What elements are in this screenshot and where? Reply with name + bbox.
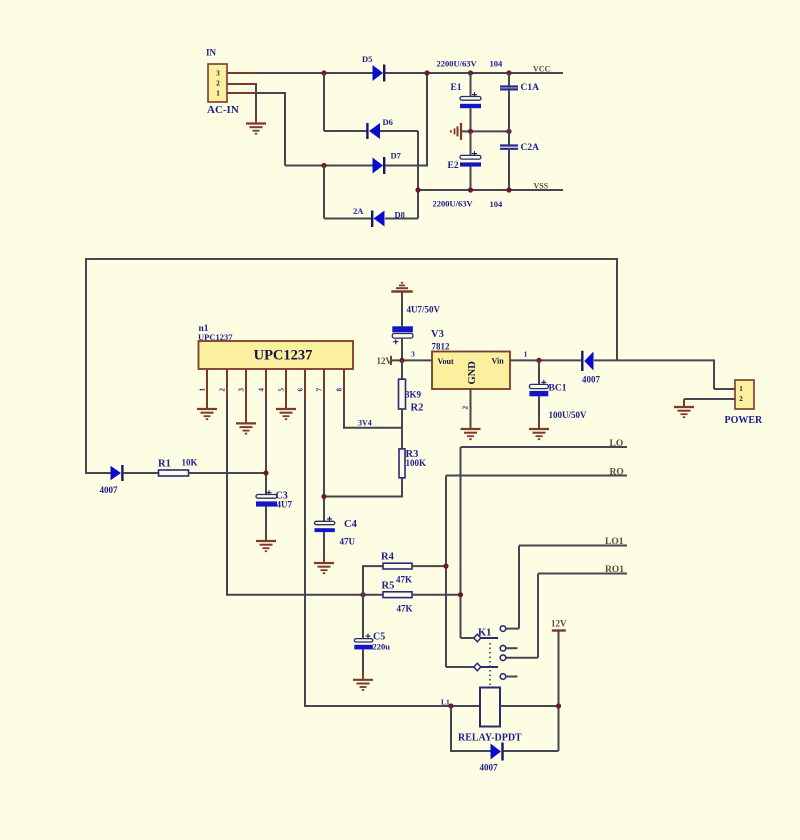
switch K1 contact NC A stub bbox=[500, 645, 506, 651]
resistor R3 bbox=[399, 449, 426, 478]
wire pin7 down to C4 bbox=[323, 399, 325, 521]
node junction D7 row bbox=[321, 163, 326, 168]
svg-text:3: 3 bbox=[238, 388, 246, 392]
svg-text:R4: R4 bbox=[381, 552, 395, 563]
svg-text:IN: IN bbox=[206, 48, 217, 58]
diode D8 bbox=[353, 206, 405, 227]
ground C4 bbox=[314, 555, 334, 573]
pin 1 stub of AC-IN bbox=[227, 92, 257, 94]
svg-text:E2: E2 bbox=[448, 161, 459, 171]
svg-text:2: 2 bbox=[216, 80, 220, 88]
node LO/R5 junction bbox=[458, 592, 463, 597]
svg-text:4007: 4007 bbox=[100, 485, 119, 495]
svg-text:1: 1 bbox=[739, 385, 743, 393]
pin 2 of V3 bbox=[461, 389, 471, 422]
net LO wire bbox=[461, 446, 628, 448]
svg-text:3: 3 bbox=[216, 70, 220, 78]
wire POWER pin2 to ground bbox=[684, 398, 735, 400]
ground at AC-IN pin2 bbox=[246, 116, 266, 134]
svg-text:POWER: POWER bbox=[725, 415, 764, 426]
svg-text:2: 2 bbox=[739, 395, 743, 403]
wire 12V to V3 Vout bbox=[391, 359, 432, 361]
svg-text:UPC1237: UPC1237 bbox=[198, 332, 233, 342]
switch K1 contact NC B stub bbox=[500, 674, 506, 680]
switch K1 pole A bbox=[474, 634, 498, 642]
capacitor E1 bbox=[451, 73, 482, 131]
net LO1 wire bbox=[519, 545, 627, 547]
wire to D6 anode bbox=[324, 130, 367, 132]
diode 4007 mid bbox=[582, 351, 601, 385]
wire D8 row left bbox=[324, 218, 372, 220]
capacitor C5 bbox=[354, 632, 390, 674]
connector POWER bbox=[725, 380, 764, 426]
wire R1 to pin4 node bbox=[189, 472, 267, 474]
resistor R2 bbox=[399, 360, 424, 413]
svg-text:RO: RO bbox=[610, 468, 624, 478]
svg-text:2200U/63V: 2200U/63V bbox=[437, 58, 478, 68]
wire down to D6 row bbox=[323, 73, 325, 131]
diode 4007 flyback bbox=[480, 743, 503, 773]
svg-text:4: 4 bbox=[258, 388, 266, 392]
wire flyback loop left bbox=[450, 706, 452, 752]
wire pin2 row to R5 bbox=[227, 594, 383, 596]
wire diode to R1 bbox=[123, 472, 159, 474]
svg-text:104: 104 bbox=[490, 58, 504, 68]
wire pin4 down to R1 node bbox=[265, 399, 267, 495]
svg-text:BC1: BC1 bbox=[549, 384, 567, 394]
svg-text:3K9: 3K9 bbox=[405, 390, 422, 400]
svg-text:220u: 220u bbox=[373, 642, 391, 652]
svg-text:Vout: Vout bbox=[438, 357, 454, 366]
svg-text:100K: 100K bbox=[406, 458, 427, 468]
connector AC-IN body bbox=[208, 64, 227, 102]
ground bar inverted above 4U7 cap bbox=[391, 283, 412, 292]
svg-text:1: 1 bbox=[216, 90, 220, 98]
power bar 12V relay bbox=[552, 629, 566, 631]
wire pin2 down bbox=[226, 399, 228, 596]
node R3/C4 junction bbox=[321, 494, 326, 499]
pin 3 stub of AC-IN bbox=[227, 72, 257, 74]
svg-text:V3: V3 bbox=[431, 329, 444, 340]
wire pin3 to D5 bbox=[257, 72, 373, 74]
capacitor C3 bbox=[256, 490, 292, 534]
resistor R1 bbox=[158, 458, 198, 477]
svg-text:VCC: VCC bbox=[533, 65, 551, 74]
capacitor C1A bbox=[500, 73, 539, 145]
wire big loop top bbox=[86, 258, 617, 260]
diode 4007 left bbox=[100, 465, 123, 495]
wire 4U7 down to 12V node bbox=[401, 338, 403, 360]
svg-text:R5: R5 bbox=[382, 581, 395, 592]
pin 6 of U1 bbox=[297, 369, 306, 399]
wire R3 bottom to pin7 bbox=[401, 478, 403, 498]
svg-text:6: 6 bbox=[297, 388, 305, 392]
wire vertical D6 to D8 bbox=[417, 131, 419, 219]
svg-text:4U7: 4U7 bbox=[277, 500, 293, 510]
svg-text:7: 7 bbox=[316, 388, 324, 392]
pin 3 of U1 bbox=[238, 369, 247, 416]
svg-text:R2: R2 bbox=[411, 403, 424, 414]
svg-text:1: 1 bbox=[199, 388, 207, 392]
wire D5 to VCC rail bbox=[385, 72, 563, 74]
relay coil RELAY-DPDT bbox=[458, 688, 522, 744]
svg-text:7812: 7812 bbox=[432, 342, 451, 352]
wire LO1 vertical to contact bbox=[518, 546, 520, 629]
wire pin8 down and right (3V4 net) bbox=[343, 399, 345, 428]
IC n1 UPC1237 bbox=[198, 324, 353, 369]
capacitor E2 bbox=[448, 131, 482, 190]
wire diode to POWER bbox=[594, 359, 714, 361]
wire R2 to R3 bbox=[401, 409, 403, 449]
wire pin6 down bbox=[304, 399, 306, 707]
resistor R4 bbox=[363, 552, 446, 585]
wire D8 to right vertical bbox=[385, 218, 418, 220]
svg-text:E1: E1 bbox=[451, 83, 462, 93]
wire RO1 vertical to contact bbox=[537, 574, 539, 658]
wire coil right to 12V vertical bbox=[500, 705, 559, 707]
svg-text:LO1: LO1 bbox=[605, 537, 624, 547]
wire bar to 4U7 cap bbox=[401, 293, 403, 327]
node junction on pin3 wire bbox=[321, 70, 326, 75]
svg-text:4007: 4007 bbox=[480, 763, 499, 773]
svg-text:1: 1 bbox=[524, 350, 528, 359]
wire pin1 right and down bbox=[257, 92, 285, 94]
svg-text:AC-IN: AC-IN bbox=[207, 104, 239, 116]
svg-text:C1A: C1A bbox=[521, 83, 540, 93]
svg-text:4U7/50V: 4U7/50V bbox=[407, 305, 441, 315]
capacitor C4 bbox=[315, 516, 358, 556]
wire pin2 down to ground bbox=[255, 83, 256, 85]
svg-text:104: 104 bbox=[490, 199, 504, 209]
ground pin1 bbox=[197, 401, 217, 419]
wire R1 row left bbox=[86, 472, 111, 474]
ground V3 pin2 bbox=[461, 421, 481, 439]
ground C5 bbox=[353, 672, 373, 690]
wire D7 to right bbox=[385, 165, 427, 167]
wire coil row left bbox=[305, 705, 480, 707]
svg-text:3V4: 3V4 bbox=[358, 419, 372, 428]
svg-text:2: 2 bbox=[461, 406, 470, 410]
svg-text:RO1: RO1 bbox=[605, 565, 624, 575]
regulator V3 7812 bbox=[431, 329, 510, 389]
mid rail between E1/E2 bbox=[461, 130, 509, 132]
wire big loop right vertical bbox=[616, 258, 618, 360]
diode D6 bbox=[367, 117, 392, 139]
dotted actuator link bbox=[489, 643, 491, 687]
pin 2 stub of AC-IN bbox=[227, 83, 256, 85]
VSS rail bbox=[418, 189, 563, 191]
wire vertical to D8 row bbox=[323, 166, 325, 219]
diode D7 bbox=[373, 151, 402, 175]
capacitor BC1 bbox=[529, 360, 587, 422]
svg-text:100U/50V: 100U/50V bbox=[549, 410, 588, 420]
svg-text:2A: 2A bbox=[353, 206, 364, 216]
svg-text:R1: R1 bbox=[158, 459, 171, 470]
svg-text:RELAY-DPDT: RELAY-DPDT bbox=[458, 733, 522, 744]
net RO wire bbox=[446, 475, 627, 477]
pin 8 of U1 bbox=[336, 369, 345, 399]
svg-text:47U: 47U bbox=[340, 537, 356, 547]
wire RO vertical to pole B bbox=[445, 476, 447, 668]
ground rotated left at mid rail bbox=[451, 123, 461, 140]
net RO1 wire bbox=[538, 573, 627, 575]
svg-text:LO: LO bbox=[610, 439, 624, 449]
svg-text:C2A: C2A bbox=[521, 143, 540, 153]
wire 12V down to coil bbox=[558, 631, 560, 752]
pin 2 of U1 bbox=[219, 369, 228, 399]
svg-text:2: 2 bbox=[219, 388, 227, 392]
resistor R5 bbox=[382, 581, 461, 614]
svg-text:GND: GND bbox=[467, 361, 478, 385]
node coil right junction bbox=[556, 703, 561, 708]
ground BC1 bbox=[529, 421, 549, 439]
capacitor 4U7/50V bbox=[392, 305, 440, 345]
junction VCC rail nodes bbox=[424, 70, 429, 75]
ground C3 bbox=[256, 533, 276, 551]
svg-text:47K: 47K bbox=[397, 604, 413, 614]
wire D6 to right vertical bbox=[380, 130, 418, 132]
svg-text:12V: 12V bbox=[551, 619, 567, 629]
node 12V junction bbox=[399, 358, 404, 363]
svg-text:D6: D6 bbox=[383, 117, 393, 127]
svg-text:Vin: Vin bbox=[492, 357, 505, 366]
wire R4 left down to C5 bbox=[362, 565, 364, 638]
ground POWER bbox=[674, 399, 694, 417]
node R1/C3 junction bbox=[263, 470, 268, 475]
svg-text:8: 8 bbox=[336, 388, 344, 392]
wire big loop left vertical bbox=[85, 258, 87, 474]
power bar 12V at V3 bbox=[390, 356, 392, 365]
pin 1 of U1 bbox=[199, 369, 208, 402]
wire Vin to diode bbox=[510, 359, 581, 361]
node coil left junction bbox=[448, 703, 453, 708]
svg-text:10K: 10K bbox=[182, 458, 198, 468]
wire flyback right bbox=[504, 750, 559, 752]
wire vertical VCC to D7 bbox=[426, 73, 428, 167]
svg-text:3: 3 bbox=[411, 350, 415, 359]
wire LO vertical to pole A bbox=[460, 447, 462, 638]
ground pin5 bbox=[276, 401, 296, 419]
node R4/R5/C5 junction bbox=[360, 592, 365, 597]
svg-text:D7: D7 bbox=[391, 151, 402, 161]
capacitor C2A bbox=[500, 143, 539, 190]
svg-text:12V: 12V bbox=[377, 356, 393, 366]
svg-text:VSS: VSS bbox=[534, 182, 549, 191]
svg-text:4007: 4007 bbox=[582, 375, 601, 385]
svg-text:D5: D5 bbox=[362, 54, 372, 64]
ground pin3 bbox=[236, 415, 256, 433]
node RO/R4 junction bbox=[443, 564, 448, 569]
diode D5 bbox=[362, 54, 384, 82]
svg-text:2200U/63V: 2200U/63V bbox=[433, 199, 474, 209]
pin 4 of U1 bbox=[258, 369, 267, 399]
switch K1 pole B bbox=[474, 663, 498, 671]
pin 5 of U1 bbox=[278, 369, 287, 402]
svg-text:C4: C4 bbox=[344, 519, 358, 530]
wire D7 row left bbox=[285, 165, 373, 167]
switch K1 contact 3 (RO1) bbox=[500, 655, 506, 661]
svg-text:47K: 47K bbox=[396, 575, 412, 585]
svg-text:UPC1237: UPC1237 bbox=[254, 348, 313, 364]
switch K1 contact 1 (LO1) bbox=[500, 626, 506, 632]
svg-text:5: 5 bbox=[278, 388, 286, 392]
node BC1 tap bbox=[536, 358, 541, 363]
pin 7 of U1 bbox=[316, 369, 325, 399]
